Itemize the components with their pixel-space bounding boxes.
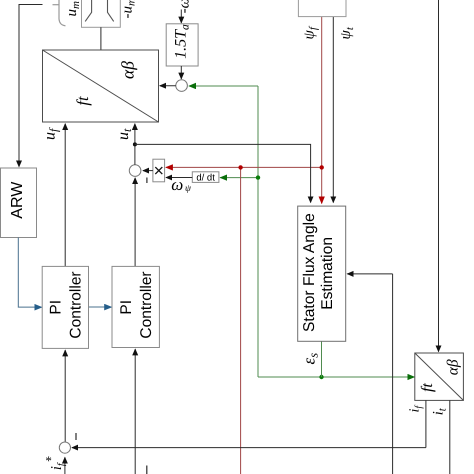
arrow 1.5Ta to summing junction S1 — [180, 66, 182, 79]
wire from bottom right up — [392, 274, 394, 474]
wire S3 up into PI1 bottom — [64, 350, 66, 442]
green wire from stator flux block bottom — [321, 341, 323, 377]
1.5Ta gain block — [166, 24, 198, 66]
red horizontal wire to multiplier — [166, 166, 322, 168]
svg-text:if: if — [49, 462, 67, 470]
stator flux angle estimation block — [298, 206, 346, 341]
svg-text:um: um — [64, 1, 82, 17]
i_f output wire loop to S3 — [425, 400, 427, 447]
svg-text:ψ: ψ — [185, 184, 192, 194]
psi_t wire (black) from flux model block — [332, 17, 334, 203]
svg-text:PI: PI — [48, 300, 65, 315]
flux model block (top, cropped) — [298, 0, 346, 17]
far right vertical wire into bottom transform — [438, 0, 440, 352]
svg-text:ut: ut — [115, 128, 134, 140]
svg-text:εs: εs — [300, 353, 321, 365]
arrow multiplier to S2 — [143, 170, 153, 172]
i_t output wire down — [449, 400, 451, 474]
svg-text:uf: uf — [42, 127, 61, 140]
svg-text:αβ: αβ — [118, 61, 138, 79]
red wire psi_f vertical from flux block — [321, 17, 323, 204]
multiplier block — [153, 159, 165, 182]
svg-text:ft: ft — [419, 383, 436, 392]
summing junction S2 — [129, 165, 141, 177]
minus tick below PI2 (cropped junction) — [146, 466, 148, 474]
red vertical wire down — [240, 167, 242, 474]
summing junction S3 — [59, 442, 70, 453]
svg-text:if: if — [408, 405, 425, 413]
svg-text:ft: ft — [73, 96, 92, 106]
saturation glyph left — [85, 0, 91, 21]
u_t tap wire to stator flux block — [135, 144, 311, 202]
multiplier cross — [155, 167, 162, 174]
svg-text:PI: PI — [118, 300, 135, 315]
saturation glyph right — [108, 0, 114, 21]
arrow into ARW top — [16, 161, 22, 168]
green wire epsilon_s to S1 — [189, 85, 258, 87]
red junction dot left — [238, 165, 242, 169]
wire PI2 output up to S2 — [134, 178, 136, 267]
svg-text:αβ: αβ — [445, 359, 462, 375]
gray brace curve near limiter — [53, 0, 66, 26]
limiter (saturation) block — [82, 0, 121, 27]
arrow into stator flux block right edge — [347, 273, 392, 275]
i_f* reference arrow into S3 bottom — [64, 457, 66, 474]
green junction dot — [256, 175, 260, 179]
blue wire ARW to PI1 — [18, 238, 41, 308]
svg-text:ARW: ARW — [9, 181, 26, 219]
PI controller 1 — [42, 266, 88, 348]
svg-text:-ω: -ω — [177, 0, 193, 13]
d/dt block — [192, 172, 219, 183]
summing junction S1 — [176, 80, 188, 92]
i_f feedback wire into S3 — [72, 447, 426, 449]
green horizontal wire to bottom transform — [258, 376, 414, 378]
green wire to d/dt — [220, 177, 258, 179]
red junction dot right — [320, 165, 324, 169]
blue wire PI1 to PI2 — [89, 306, 111, 308]
svg-text:Controller: Controller — [68, 271, 85, 338]
svg-text:Estimation: Estimation — [319, 237, 336, 310]
PI controller 2 — [112, 266, 159, 347]
arrow -omega into 1.5Ta block — [180, 10, 182, 23]
wire PI1 output up to ft block (u_f) — [64, 124, 66, 267]
minus tick at S2 input — [146, 178, 148, 184]
minus tick at S3 — [75, 433, 77, 440]
green junction dot at eps_s — [319, 375, 323, 379]
ft / alpha-beta transform block (top) — [43, 50, 159, 122]
wire from below up into PI2 bottom — [134, 349, 136, 474]
svg-text:d/ dt: d/ dt — [196, 173, 215, 184]
svg-text:-um: -um — [120, 0, 138, 19]
wire limiter to ft block — [100, 27, 102, 50]
green vertical wire — [257, 86, 259, 377]
bottom alpha-beta to ft transform block — [415, 353, 464, 400]
svg-text:it: it — [431, 407, 449, 415]
svg-text:ω: ω — [171, 175, 183, 194]
svg-text:Stator Flux Angle: Stator Flux Angle — [301, 213, 318, 332]
svg-text:Controller: Controller — [138, 271, 155, 338]
svg-text:ψt: ψt — [338, 26, 356, 39]
svg-text:ψf: ψf — [302, 25, 320, 39]
wire S2 up to ft block (u_t) — [134, 124, 136, 165]
wire to ARW from top limiter area — [19, 5, 43, 167]
ARW block — [1, 168, 37, 238]
arrow d/dt to multiplier — [166, 177, 192, 179]
junction dot u_t — [133, 142, 137, 146]
arrow S1 output into ft block right edge — [160, 85, 176, 87]
svg-text:*: * — [45, 453, 52, 468]
